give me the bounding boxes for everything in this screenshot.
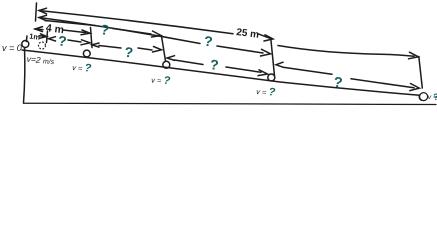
svg-text:?: ? xyxy=(100,21,110,38)
svg-text:v=2 m/s: v=2 m/s xyxy=(26,54,55,66)
d_b line left xyxy=(99,46,121,49)
svg-text:?: ? xyxy=(209,56,219,73)
row 2 arrowhead right xyxy=(152,31,162,37)
svg-text:?: ? xyxy=(433,92,437,102)
svg-text:v = ?: v = ? xyxy=(151,74,171,88)
text labels (black measurements) xyxy=(2,22,437,102)
row B right segment xyxy=(258,34,270,39)
svg-text:v = ?: v = ? xyxy=(256,85,276,99)
svg-text:v = ?: v = ? xyxy=(72,61,92,75)
svg-text:25 m: 25 m xyxy=(236,27,260,41)
row 4m arrowhead right xyxy=(81,30,90,35)
d_a line xyxy=(68,40,81,42)
d_c line right xyxy=(226,67,261,72)
d_d line right xyxy=(351,79,414,88)
row 4m arrowhead left xyxy=(35,27,43,32)
ghost ball (dashed) xyxy=(39,42,46,49)
svg-text:?: ? xyxy=(57,32,67,49)
tick T0 top-left xyxy=(36,3,37,21)
d_d arrowhead right xyxy=(410,84,420,91)
incline surface xyxy=(22,50,420,95)
d_b arrowhead left xyxy=(92,43,99,47)
d_c arrowhead left xyxy=(167,56,175,61)
row 1m arrow xyxy=(40,34,47,38)
tick T3 above ball2 xyxy=(91,28,93,48)
svg-text:?: ? xyxy=(124,44,134,61)
row B continuation T5 to TR xyxy=(278,46,414,57)
tick TR right end xyxy=(419,57,423,89)
row 4m line xyxy=(35,29,86,33)
ball 1 (top of incline) xyxy=(22,41,29,48)
svg-text:1m: 1m xyxy=(29,32,41,42)
row A arrowhead left xyxy=(39,15,47,20)
d_b line right xyxy=(138,48,152,50)
row B (25 m total) left segment xyxy=(39,11,233,34)
svg-text:?: ? xyxy=(203,33,213,50)
d_d line left xyxy=(283,67,332,74)
svg-text:v = 0: v = 0 xyxy=(2,43,22,53)
d_d arrowhead left xyxy=(276,62,283,67)
row A (? to T5) left segment xyxy=(39,18,200,44)
d_b arrowhead right xyxy=(153,47,162,53)
d_c arrowhead right xyxy=(258,70,268,76)
left vertical edge xyxy=(24,48,25,104)
d_c line left xyxy=(175,60,204,65)
ball 6 (bottom, scribbled) xyxy=(419,93,427,101)
tick T1 above ball1 xyxy=(25,36,28,42)
d_a arrowhead right xyxy=(81,40,90,45)
bottom base line xyxy=(24,103,437,104)
tick T5 above ball4 xyxy=(271,41,275,77)
row B stub arrowhead into T5 top xyxy=(264,35,273,41)
svg-text:?: ? xyxy=(332,75,343,92)
row B arrowhead left xyxy=(39,8,47,14)
row 2 right segment xyxy=(113,29,151,35)
d_a arrowhead left xyxy=(49,37,56,41)
row A arrowhead right xyxy=(261,49,271,56)
ball 3 xyxy=(163,61,170,68)
row 2 (? to T4) left segment xyxy=(45,21,95,26)
tick T2 above ghost ball xyxy=(47,31,48,43)
ball 2 xyxy=(83,50,90,57)
row A right segment xyxy=(217,46,263,53)
ball 4 xyxy=(268,74,275,81)
row B arrowhead right xyxy=(409,52,419,59)
tick T4 above ball3 xyxy=(162,36,166,61)
teal question marks on dimension rows xyxy=(57,21,343,92)
